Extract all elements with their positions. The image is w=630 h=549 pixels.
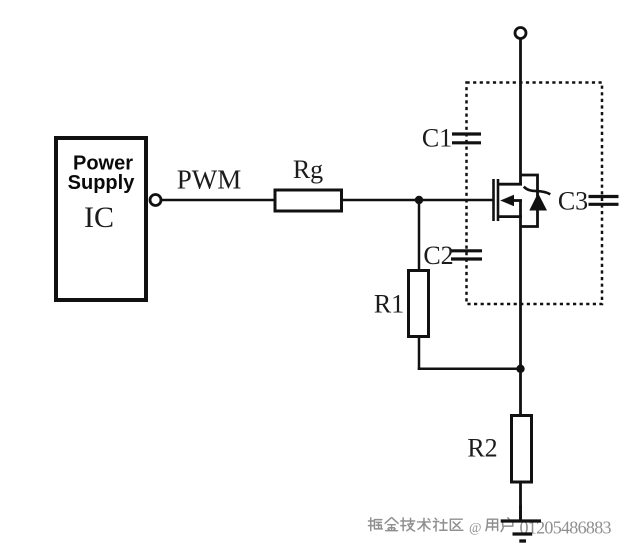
MOSFET Q1 drain stub (498, 183, 522, 186)
wire source node to R2 (519, 369, 522, 416)
wire R1 bottom down (418, 336, 421, 370)
capacitor C1 plates (452, 134, 481, 143)
watermark at sign (469, 520, 481, 535)
watermark glyph jin (385, 518, 398, 531)
junction node gate (415, 196, 423, 204)
watermark glyph qu (450, 519, 462, 530)
capacitor C3 plates (589, 197, 619, 205)
wire R2 to ground (519, 481, 522, 521)
power supply IC box U1 (56, 138, 146, 300)
svg-text:C3: C3 (558, 187, 588, 216)
ground symbol (501, 521, 541, 541)
output terminal pin of IC (150, 195, 161, 206)
watermark glyph she (433, 518, 447, 531)
watermark glyph ji (401, 518, 415, 531)
body diode branch wiring (521, 175, 538, 227)
watermark glyph ju (368, 518, 382, 531)
svg-text:R2: R2 (467, 434, 497, 463)
MOSFET Q1 body stub with arrow (500, 195, 522, 206)
junction node source (516, 365, 524, 373)
svg-text:Supply: Supply (68, 172, 136, 194)
wire PWM from IC pin to Rg (162, 199, 275, 202)
wire R1 to source node (418, 368, 521, 371)
wire drain from terminal (519, 39, 522, 186)
resistor R2 (512, 416, 532, 483)
dashed box MOSFET package (467, 83, 603, 305)
watermark glyph hu (501, 518, 513, 532)
capacitor C2 plates (451, 251, 482, 259)
wire source vertical (519, 201, 522, 371)
body diode D1 triangle (529, 193, 547, 211)
wire gate node down to R1 (418, 200, 421, 271)
svg-text:IC: IC (84, 201, 114, 234)
resistor Rg (275, 190, 342, 211)
watermark glyph shu (418, 518, 431, 531)
wire Rg to gate node (342, 199, 494, 202)
svg-text:C1: C1 (422, 124, 452, 153)
svg-text:C2: C2 (423, 241, 453, 270)
watermark glyph yong (486, 519, 498, 531)
watermark text (368, 518, 462, 531)
supply terminal circle top (515, 28, 526, 39)
MOSFET Q1 gate bar (492, 179, 495, 221)
wire stub into ground (519, 505, 522, 521)
svg-text:Rg: Rg (293, 155, 323, 184)
MOSFET Q1 source stub (498, 215, 522, 218)
svg-text:PWM: PWM (177, 165, 242, 195)
watermark digits (520, 518, 612, 538)
body diode D1 cathode curve (524, 187, 551, 195)
svg-text:R1: R1 (374, 290, 404, 319)
svg-text:@: @ (469, 520, 481, 535)
MOSFET Q1 channel bar (497, 179, 500, 221)
resistor R1 (409, 271, 429, 337)
